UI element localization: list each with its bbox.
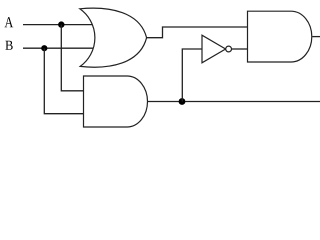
and-gate right — [248, 11, 312, 62]
wire B input — [23, 47, 93, 49]
wire and-output to right edge — [148, 101, 320, 103]
wire inverter output — [232, 48, 248, 50]
junction on A — [58, 21, 64, 27]
inverter bubble — [226, 46, 232, 52]
wire or-output step — [147, 27, 248, 38]
wire B branch vertical — [44, 48, 84, 114]
junction on and-output — [179, 98, 186, 105]
or-gate — [80, 8, 147, 67]
wire right and-gate output — [312, 36, 320, 38]
node A — [5, 17, 14, 27]
wire A branch vertical — [61, 25, 84, 91]
junction on B — [41, 45, 47, 51]
and-gate lower-left — [84, 76, 148, 127]
wire junction to inverter input — [182, 49, 202, 102]
wire A input — [23, 24, 93, 26]
inverter triangle — [202, 35, 226, 63]
node B — [5, 41, 12, 50]
